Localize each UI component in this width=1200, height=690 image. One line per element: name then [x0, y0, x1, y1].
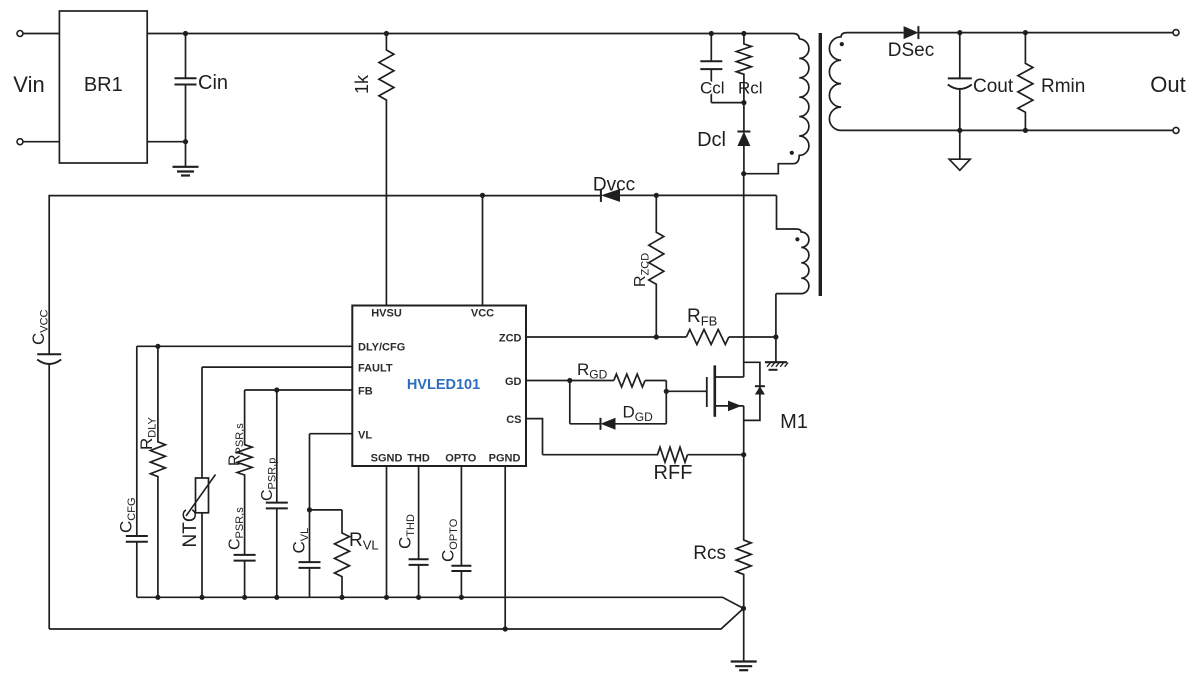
wire Rcs to ground [743, 608, 745, 661]
svg-text:Rcl: Rcl [738, 79, 763, 98]
label Vin [13, 72, 44, 97]
junction bottom at Cin [183, 139, 188, 144]
transformer core [819, 33, 822, 296]
auxiliary phase dot [795, 237, 799, 241]
capacitor Cthd [396, 466, 429, 597]
svg-text:HVLED101: HVLED101 [407, 377, 480, 393]
junction secondary bottom at Cout [957, 128, 962, 133]
svg-text:Cin: Cin [198, 72, 228, 94]
ground below Cin [173, 167, 199, 176]
svg-text:SGND: SGND [371, 453, 403, 465]
diode Dgd [570, 403, 667, 430]
junction pgnd rail at PGND [503, 626, 508, 631]
pin CS [506, 414, 521, 426]
svg-text:Dvcc: Dvcc [593, 175, 635, 196]
wire BR1 top output rail [147, 34, 799, 40]
svg-text:VCC: VCC [471, 308, 494, 320]
resistor Rcl [736, 34, 762, 103]
svg-text:Rcs: Rcs [693, 543, 726, 564]
svg-text:M1: M1 [780, 411, 808, 433]
transistor M1 [707, 365, 808, 433]
junction secondary top at Cout [957, 30, 962, 35]
junction Dvcc line at Rzcd [654, 193, 659, 198]
resistor Rdly [137, 346, 165, 597]
pin DLY/CFG [358, 342, 405, 354]
resistor Rfb [686, 306, 776, 345]
wire body diode branch [744, 362, 760, 420]
wire FAULT [202, 366, 352, 368]
junction ground rail at Cthd [416, 595, 421, 600]
transformer primary winding [744, 39, 809, 174]
junction gate tap [664, 389, 669, 394]
signal ground below Cout [949, 159, 970, 170]
pin FB [358, 386, 373, 398]
junction ground rail at Rdly [155, 595, 160, 600]
junction RFF at source [741, 452, 746, 457]
transformer auxiliary winding [776, 195, 809, 293]
pin FAULT [358, 363, 393, 375]
pin ZCD [499, 333, 522, 345]
svg-text:FAULT: FAULT [358, 363, 393, 375]
junction VL branch node [307, 507, 312, 512]
node Vin+ terminal [17, 31, 23, 37]
svg-text:Out: Out [1150, 72, 1185, 97]
resistor Rgd [577, 360, 666, 387]
junction ground rail at Rvl [339, 595, 344, 600]
capacitor Ccl [700, 34, 725, 103]
bridge rectifier BR1 [59, 11, 147, 163]
ground below Rcs [731, 662, 757, 671]
label Out [1150, 72, 1185, 97]
wire SGND stub [386, 466, 388, 597]
wire source line [743, 406, 745, 537]
pin OPTO [445, 453, 476, 465]
junction ground rail at NTC [199, 595, 204, 600]
svg-text:OPTO: OPTO [445, 453, 476, 465]
wire BR1 bottom to Cin [147, 141, 185, 143]
junction ground rail at Cpsr_p [274, 595, 279, 600]
pin THD [407, 453, 430, 465]
junction ground rail at Copto [459, 595, 464, 600]
capacitor Cvl [290, 434, 321, 598]
svg-text:Vin: Vin [13, 72, 44, 97]
junction ground star point [741, 606, 746, 611]
svg-text:DSec: DSec [888, 40, 934, 61]
junction ground rail at Cpsr_s [242, 595, 247, 600]
svg-text:BR1: BR1 [84, 74, 123, 96]
wire GD right leg [665, 381, 667, 424]
svg-text:Cout: Cout [973, 76, 1014, 97]
wire GD left leg [569, 381, 571, 424]
wire GD [526, 380, 614, 382]
pin GD [505, 376, 522, 388]
svg-text:CS: CS [506, 414, 521, 426]
svg-text:VL: VL [358, 430, 372, 442]
svg-text:1k: 1k [352, 74, 372, 94]
junction Dvcc line at VCC [480, 193, 485, 198]
svg-text:NTC: NTC [180, 508, 201, 547]
junction drain clamp winding node [741, 171, 746, 176]
junction top rail at Rcl [741, 31, 746, 36]
wire signal ground rail [137, 597, 744, 608]
label 1k [352, 74, 372, 94]
svg-text:THD: THD [407, 453, 430, 465]
wire aux winding to ground [775, 294, 777, 363]
pin SGND [371, 453, 403, 465]
wire VCC pin stub [482, 195, 484, 305]
wire Ccl bottom to Rcl bottom [711, 102, 744, 104]
junction FB wire at Cpsrp [274, 387, 279, 392]
resistor 1k [379, 34, 394, 306]
wire Cvcc corner to Dvcc [49, 196, 601, 355]
resistor RFF [543, 447, 744, 484]
wire drain line [743, 174, 745, 377]
wire PGND stub [504, 466, 506, 629]
junction GD split [567, 378, 572, 383]
capacitor Ccfg [117, 346, 148, 597]
wire Vin- to BR1 [23, 141, 59, 143]
junction top rail at Ccl [709, 31, 714, 36]
svg-text:Rmin: Rmin [1041, 76, 1085, 97]
secondary phase dot [840, 42, 844, 46]
junction ground rail at SGND [384, 595, 389, 600]
capacitor Copto [439, 466, 472, 597]
junction top rail at 1k [384, 31, 389, 36]
junction ZCD at Rzcd [654, 334, 659, 339]
svg-text:DLY/CFG: DLY/CFG [358, 342, 405, 354]
capacitor Cpsr_s [227, 507, 256, 598]
pin PGND [489, 453, 521, 465]
capacitor Cvcc [29, 309, 61, 364]
junction DLY wire at Rdly [155, 344, 160, 349]
node Out- terminal [1173, 127, 1179, 133]
resistor Rpsr_s [227, 390, 253, 555]
node Out+ terminal [1173, 30, 1179, 36]
junction secondary bottom at Rmin [1023, 128, 1028, 133]
wire VL jog to Rvl [310, 509, 343, 511]
pin VL [358, 430, 372, 442]
resistor Rcs [693, 537, 751, 608]
junction Rfb to aux ground wire [773, 334, 778, 339]
wire Vin+ to BR1 [23, 33, 59, 35]
svg-text:Ccl: Ccl [700, 79, 725, 98]
capacitor Cpsr_p [259, 390, 288, 597]
capacitor Cout [948, 33, 1014, 131]
wire DLY/CFG [137, 345, 352, 347]
resistor Rmin [1018, 33, 1085, 131]
diode Dcl [697, 103, 750, 174]
wire DSec to Out+ [918, 32, 1173, 34]
primary phase dot [790, 151, 794, 155]
svg-text:Dcl: Dcl [697, 129, 726, 151]
wire Cvcc bottom to ground rail [48, 363, 50, 629]
wire secondary bottom rail [947, 129, 1173, 131]
svg-text:RFF: RFF [654, 462, 693, 484]
pin VCC [471, 308, 494, 320]
svg-text:FB: FB [358, 386, 373, 398]
junction secondary top at Rmin [1023, 30, 1028, 35]
junction top rail at Cin [183, 31, 188, 36]
thermistor NTC [180, 367, 216, 597]
pin HVSU [371, 308, 402, 320]
wire power ground rail [49, 608, 743, 629]
diode M1 body diode [755, 386, 765, 394]
node Vin- terminal [17, 139, 23, 145]
wire gate lead [666, 390, 707, 392]
ground below aux winding [765, 362, 788, 370]
transformer secondary winding [829, 33, 947, 131]
junction clamp node [741, 100, 746, 105]
wire FB [245, 389, 353, 391]
wire Dvcc to aux winding [620, 194, 777, 196]
diode DSec [888, 26, 934, 61]
capacitor Cin [175, 34, 229, 142]
resistor Rvl [335, 510, 379, 597]
wire VL [310, 433, 353, 435]
wire CS [526, 419, 543, 455]
diode Dvcc [593, 175, 635, 202]
resistor Rzcd [632, 195, 664, 337]
op-amp U1 HVLED101 IC body [352, 306, 526, 467]
svg-text:ZCD: ZCD [499, 333, 522, 345]
svg-text:GD: GD [505, 376, 522, 388]
wire Cout to signal ground [959, 130, 961, 159]
svg-text:PGND: PGND [489, 453, 521, 465]
wire ZCD [526, 336, 686, 338]
svg-text:HVSU: HVSU [371, 308, 402, 320]
wire Cin to ground [185, 142, 187, 167]
